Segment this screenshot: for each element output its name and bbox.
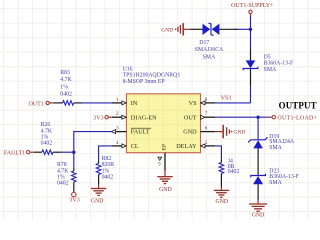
port OUT1 [28, 101, 53, 107]
svg-text:5: 5 [205, 140, 208, 146]
svg-text:4.7K: 4.7K [57, 168, 69, 174]
wire junction down to R78 [73, 152, 75, 168]
wire pin 4 to R82 [99, 146, 112, 161]
svg-text:TPS1H200AQDGNRQ1: TPS1H200AQDGNRQ1 [123, 73, 181, 79]
svg-text:FAULT: FAULT [131, 129, 150, 136]
svg-text:GND: GND [216, 199, 229, 205]
svg-text:DIAG-EN: DIAG-EN [131, 114, 157, 121]
svg-text:1%: 1% [102, 168, 110, 174]
ground below D23 [249, 200, 267, 212]
svg-text:4.7K: 4.7K [60, 77, 72, 83]
port FAULT1 [4, 151, 34, 157]
svg-text:3V3: 3V3 [69, 198, 79, 204]
R82 labels [102, 156, 115, 180]
svg-text:SMA: SMA [203, 54, 216, 60]
svg-text:1%: 1% [60, 84, 68, 90]
wire junction up to pin 3 [74, 132, 112, 153]
resistor R78 [72, 168, 77, 192]
svg-text:1: 1 [116, 97, 119, 103]
IC U16 body TPS1H200A high-side switch [126, 94, 200, 153]
svg-text:GND: GND [91, 199, 104, 205]
D5 labels [264, 55, 294, 73]
svg-text:B360A-13-F: B360A-13-F [264, 61, 294, 67]
svg-text:GND: GND [233, 130, 245, 136]
node junction at supply/TVS [249, 28, 252, 31]
svg-text:OUT1-SUPPLY+: OUT1-SUPPLY+ [231, 3, 274, 9]
resistor R82 [96, 161, 101, 185]
port 3V3 (pin 2) [93, 116, 112, 122]
pin 4 CL [112, 140, 139, 150]
R83 labels [60, 70, 72, 97]
svg-text:FAULT1: FAULT1 [4, 151, 25, 157]
pin 2 DIAG-EN [112, 111, 157, 121]
D17 labels [195, 40, 224, 61]
svg-text:0402: 0402 [102, 174, 114, 180]
R78 labels [57, 162, 69, 186]
svg-text:R78: R78 [57, 162, 67, 168]
svg-text:SMA: SMA [269, 180, 282, 186]
svg-text:8-MSOP 3mm EP: 8-MSOP 3mm EP [123, 79, 165, 85]
svg-text:4.7K: 4.7K [41, 128, 53, 134]
svg-text:4: 4 [116, 140, 119, 146]
R26 labels [41, 122, 53, 146]
svg-text:SMAJ36CA: SMAJ36CA [195, 47, 224, 53]
svg-text:VS: VS [189, 100, 197, 107]
svg-text:SMA: SMA [264, 67, 277, 73]
svg-text:2: 2 [116, 111, 119, 117]
svg-text:OUT1-LOAD+: OUT1-LOAD+ [277, 116, 317, 122]
wire pin 7 to load port [215, 116, 269, 118]
wire supply down to VS pin [250, 16, 252, 49]
pin 7 OUT [184, 111, 215, 121]
wire TVS branch [235, 28, 251, 30]
svg-text:8: 8 [205, 97, 208, 103]
svg-text:GND: GND [183, 129, 197, 136]
wire D19 to D23 [257, 148, 259, 175]
J4 labels [228, 158, 240, 175]
svg-text:R82: R82 [102, 156, 112, 162]
resistor R26 [34, 150, 62, 155]
port OUT1-LOAD+ [269, 116, 318, 122]
svg-text:3V3: 3V3 [93, 116, 103, 122]
pin 3 FAULT (active low) [111, 126, 151, 136]
ground below EP pin [157, 171, 172, 184]
D23 labels [269, 169, 299, 186]
svg-text:OUT: OUT [184, 114, 197, 121]
port 3V3 (below R78) [69, 192, 79, 203]
diode D17 TVS bidirectional [191, 23, 238, 35]
svg-text:820R: 820R [102, 162, 115, 168]
ground (left of D17, sideways) [176, 23, 191, 35]
pin 6 GND [183, 126, 215, 136]
U16 designator and part labels [123, 67, 181, 85]
wire pin 5 to J4 [215, 146, 221, 160]
svg-text:GND: GND [161, 28, 173, 34]
svg-text:0402: 0402 [60, 91, 72, 97]
pin 9 EP [158, 144, 168, 171]
svg-text:1%: 1% [41, 134, 49, 140]
wire down to D19 [257, 117, 259, 131]
svg-text:6: 6 [205, 126, 208, 132]
svg-text:OUT1: OUT1 [28, 101, 43, 107]
svg-text:EP: EP [161, 144, 167, 151]
svg-text:1%: 1% [57, 174, 65, 180]
svg-text:VS1: VS1 [221, 95, 232, 102]
svg-text:CL: CL [131, 143, 139, 150]
ground at pin 6 (sideways) [215, 125, 231, 139]
svg-text:R26: R26 [41, 122, 51, 128]
node junction FAULT1 [72, 151, 75, 154]
diode D19 TVS [248, 132, 267, 149]
pin 5 DELAY [176, 140, 215, 150]
resistor R83 [54, 101, 82, 106]
svg-text:D17: D17 [199, 40, 209, 46]
svg-text:GND: GND [252, 212, 265, 218]
svg-text:0402: 0402 [41, 141, 53, 147]
svg-text:GND: GND [159, 187, 172, 193]
wire R26 to junction [62, 151, 74, 153]
diode D5 schottky [243, 49, 258, 85]
svg-text:OUTPUT: OUTPUT [279, 101, 317, 111]
resistor J4 [219, 160, 224, 187]
ground below J4 [214, 187, 229, 198]
port OUT1-SUPPLY+ [231, 3, 274, 16]
pin 1 IN [112, 97, 138, 107]
node junction at OUT [256, 116, 259, 119]
svg-text:7: 7 [205, 111, 208, 117]
wire R83 to pin1 [82, 102, 112, 104]
D19 labels [269, 134, 295, 151]
svg-text:SMA: SMA [269, 145, 282, 151]
diode D23 schottky [251, 174, 266, 200]
svg-text:R83: R83 [60, 70, 70, 76]
ground below R82 [91, 185, 106, 196]
svg-text:3: 3 [116, 126, 119, 132]
svg-text:DELAY: DELAY [176, 143, 197, 150]
pin 8 VS [189, 97, 216, 107]
svg-text:0402: 0402 [228, 169, 240, 175]
svg-text:0402: 0402 [57, 181, 69, 187]
svg-text:IN: IN [131, 100, 138, 107]
